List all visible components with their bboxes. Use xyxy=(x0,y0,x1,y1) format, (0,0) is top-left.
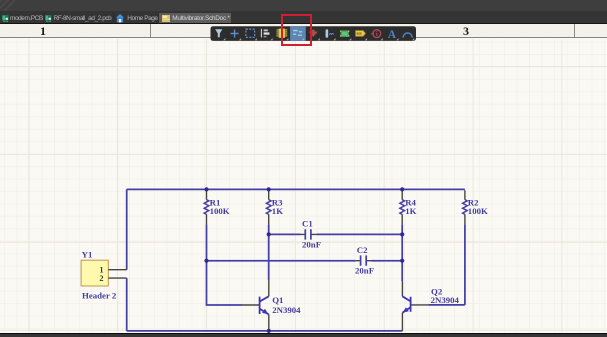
svg-text:A: A xyxy=(388,29,397,41)
